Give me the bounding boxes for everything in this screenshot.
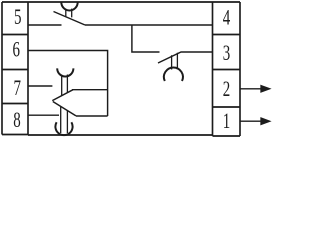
svg-text:3: 3 <box>223 41 230 66</box>
svg-text:4: 4 <box>223 6 231 31</box>
svg-text:8: 8 <box>13 108 20 133</box>
svg-text:6: 6 <box>13 38 20 63</box>
svg-text:1: 1 <box>223 109 230 134</box>
svg-text:2: 2 <box>223 77 230 102</box>
svg-text:7: 7 <box>13 76 20 101</box>
svg-text:5: 5 <box>14 5 21 30</box>
